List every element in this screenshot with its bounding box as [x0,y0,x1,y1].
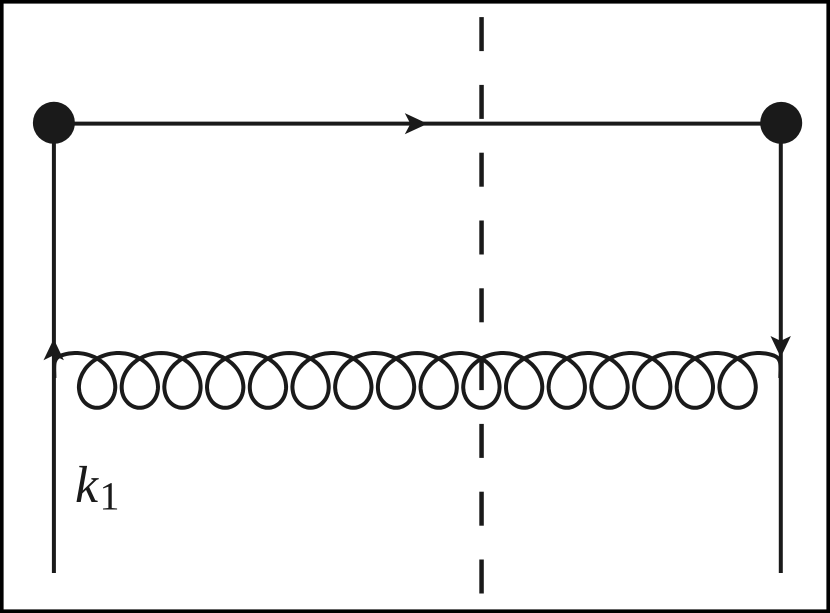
arrow down on right fermion line [771,336,791,357]
label k1 [76,466,98,502]
wire: top fermion line [54,122,781,126]
wire: left fermion line [52,123,56,573]
vertex V2 (top-right) [760,102,802,144]
gluon G1 [54,353,780,408]
arrow on top fermion line [405,113,428,134]
cut line (dashed vertical) [479,17,484,593]
vertex V1 (top-left) [33,102,75,144]
wire: right fermion line [779,123,783,573]
arrow up on left fermion line [44,339,64,360]
